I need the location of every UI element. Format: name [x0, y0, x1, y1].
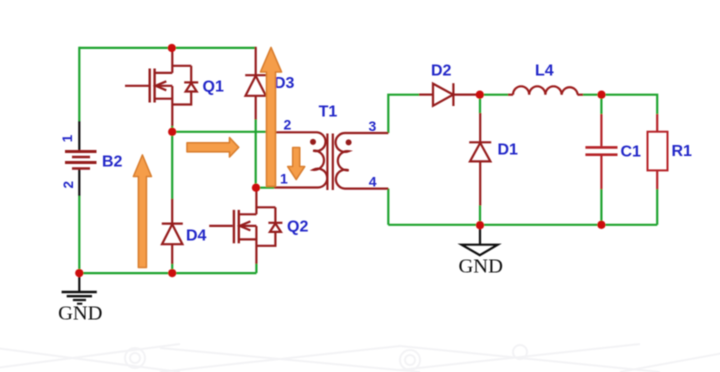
Q1 drain tick	[155, 72, 172, 74]
Q2 source pin	[255, 226, 257, 264]
C1 bottom plate	[585, 153, 617, 156]
D4 triangle	[162, 224, 182, 244]
wire: top rail	[79, 47, 255, 49]
junction node: D2 / D1 / L4	[476, 91, 484, 99]
wire: R1 bottom	[656, 189, 658, 225]
Q1 top horizontal to body diode	[172, 65, 191, 67]
C1 top plate	[585, 146, 617, 149]
wire: C1 node to R1 top corner	[602, 95, 658, 115]
junction node: Q1 source / pin2 rail / D4	[168, 128, 176, 136]
svg-text:L4: L4	[535, 63, 554, 80]
svg-text:T1: T1	[319, 104, 338, 121]
watermark lattice	[0, 344, 720, 372]
Q2 body arrow line	[240, 225, 257, 227]
Q2 body diode cathode bar	[268, 222, 282, 224]
junction node: top rail / Q1 drain	[168, 44, 176, 52]
svg-text:C1: C1	[621, 144, 642, 161]
svg-text:D1: D1	[498, 142, 519, 159]
Q1 body diode bottom lead	[172, 92, 191, 105]
Q1 source pin	[171, 86, 173, 126]
wire: D3 anode down to pin1 node	[255, 119, 257, 188]
MOSFET Q2	[209, 188, 282, 264]
inductor L4	[508, 86, 583, 94]
svg-text:R1: R1	[672, 143, 693, 160]
current arrow 3 (down into transformer)	[288, 148, 305, 180]
svg-text:D2: D2	[431, 62, 452, 79]
svg-text:Q1: Q1	[203, 79, 224, 96]
wire: D1 node down	[479, 95, 481, 114]
ground GND2 (power port)	[462, 227, 498, 255]
svg-text:1: 1	[280, 170, 288, 186]
Q1 body arrow head	[156, 81, 167, 90]
D3 cathode bar	[245, 74, 266, 76]
D2 cathode bar	[452, 83, 454, 106]
GND2 stub	[479, 227, 481, 245]
T1 core	[326, 134, 328, 191]
GND2 triangle	[462, 245, 498, 256]
Q2 drain pin	[255, 188, 257, 215]
wire: C1 bottom	[600, 189, 602, 225]
wire: node to transformer pin 2 rail	[172, 131, 274, 133]
wire: D2 node to L4	[480, 94, 509, 96]
Q2 body diode top lead	[274, 207, 276, 223]
D2 anode lead	[419, 93, 433, 95]
D1 triangle	[470, 143, 490, 162]
C1 top lead	[600, 114, 602, 146]
wire: C1 top	[600, 95, 602, 115]
T1 pin 2 lead and primary winding	[274, 132, 327, 187]
D2 triangle	[433, 84, 453, 106]
Q2 gate lead	[209, 225, 233, 227]
D3 cathode lead	[255, 47, 257, 75]
Q2 top horizontal to body diode	[256, 206, 275, 208]
Q1 drain pin	[171, 48, 173, 73]
Q2 body diode bottom lead	[256, 232, 275, 246]
R1 top lead	[656, 114, 658, 132]
D4 cathode lead	[171, 199, 173, 224]
Q1 source tick	[155, 98, 172, 100]
R1 bottom lead	[656, 170, 658, 189]
junction node: D3 / pin1 rail / Q2 drain	[252, 184, 260, 192]
wire: D4 anode to bottom rail	[171, 264, 173, 274]
svg-text:4: 4	[369, 174, 377, 190]
Q1 channel bar	[153, 69, 155, 103]
junction node: left rail / bottom rail / GND1	[75, 269, 83, 277]
Q1 body diode cathode bar	[184, 81, 198, 83]
Q1 gate lead	[125, 85, 149, 87]
Q2 drain tick	[240, 213, 257, 215]
diode D4	[162, 199, 183, 264]
Q2 channel bar	[238, 210, 240, 243]
svg-text:1: 1	[60, 134, 75, 142]
L4 leads	[508, 94, 513, 96]
Q2 source tick	[240, 238, 257, 240]
diode D2	[419, 83, 480, 106]
diode D1	[469, 113, 491, 206]
capacitor C1	[585, 114, 617, 189]
junction node: C1 / bottom rail	[597, 221, 605, 229]
D3 triangle	[246, 76, 266, 96]
T1 secondary phase dot	[346, 139, 352, 145]
D1 anode lead	[479, 161, 481, 205]
current arrow 4 (right along pin2 rail)	[187, 138, 239, 157]
current arrow 1 (up through D3)	[261, 48, 282, 187]
junction node: D4 / bottom rail	[168, 269, 176, 277]
svg-text:3: 3	[369, 118, 377, 134]
wire: bottom rail (primary side)	[79, 272, 256, 274]
svg-text:2: 2	[61, 181, 76, 189]
D3 anode lead	[255, 96, 257, 120]
battery B2	[78, 121, 80, 196]
Q2 gate bar	[233, 210, 235, 243]
D1 cathode bar	[469, 141, 491, 143]
Q1 body diode triangle	[186, 83, 197, 92]
wire: L4 to C1 node	[583, 94, 602, 96]
current arrow 2 (up near battery)	[133, 155, 151, 268]
T1 primary phase dot	[310, 139, 316, 145]
Q2 body arrow head	[240, 221, 251, 230]
Q1 body diode top lead	[190, 66, 192, 83]
D4 cathode bar	[162, 223, 183, 225]
wire: left rail upper	[78, 47, 80, 121]
wire: node to D4 cathode	[171, 132, 173, 199]
MOSFET Q1	[125, 48, 198, 126]
R1 body	[648, 132, 668, 171]
transformer T1	[274, 132, 388, 190]
svg-text:D4: D4	[186, 228, 207, 245]
wire: pin1 node to transformer pin 1	[256, 187, 274, 189]
junction node: D1 / GND2 / bottom rail	[476, 221, 484, 229]
C1 bottom lead	[600, 156, 602, 189]
svg-text:2: 2	[284, 117, 292, 133]
Q1 gate bar	[148, 69, 150, 103]
svg-text:Q2: Q2	[287, 219, 308, 236]
svg-text:GND: GND	[458, 256, 502, 278]
junction node: L4 / C1 / R1 rail	[597, 91, 605, 99]
wire: output bottom rail	[388, 224, 657, 226]
resistor R1	[648, 114, 668, 189]
wire: Q2 source to bottom rail	[255, 264, 257, 274]
diode D3	[245, 47, 266, 120]
svg-text:D3: D3	[274, 75, 295, 92]
D1 cathode lead	[479, 113, 481, 142]
D4 anode lead	[171, 244, 173, 264]
svg-text:B2: B2	[102, 154, 123, 171]
wire: D1 anode to output gnd rail	[479, 205, 481, 225]
T1 pin 3 lead and secondary winding	[336, 133, 389, 189]
D2 cathode lead	[453, 93, 480, 95]
Q2 body diode triangle	[270, 223, 281, 232]
Q1 body arrow line	[155, 85, 172, 87]
L4 winding humps	[513, 86, 578, 94]
wire: left rail lower	[78, 196, 80, 273]
wire: transformer pin 4 down to output bottom rail	[387, 189, 389, 225]
ground GND1 (earth)	[62, 275, 97, 304]
svg-text:GND: GND	[58, 303, 102, 325]
wire: Q1 source to node	[171, 126, 173, 132]
wire: transformer pin 3 to D2 anode	[388, 95, 419, 133]
